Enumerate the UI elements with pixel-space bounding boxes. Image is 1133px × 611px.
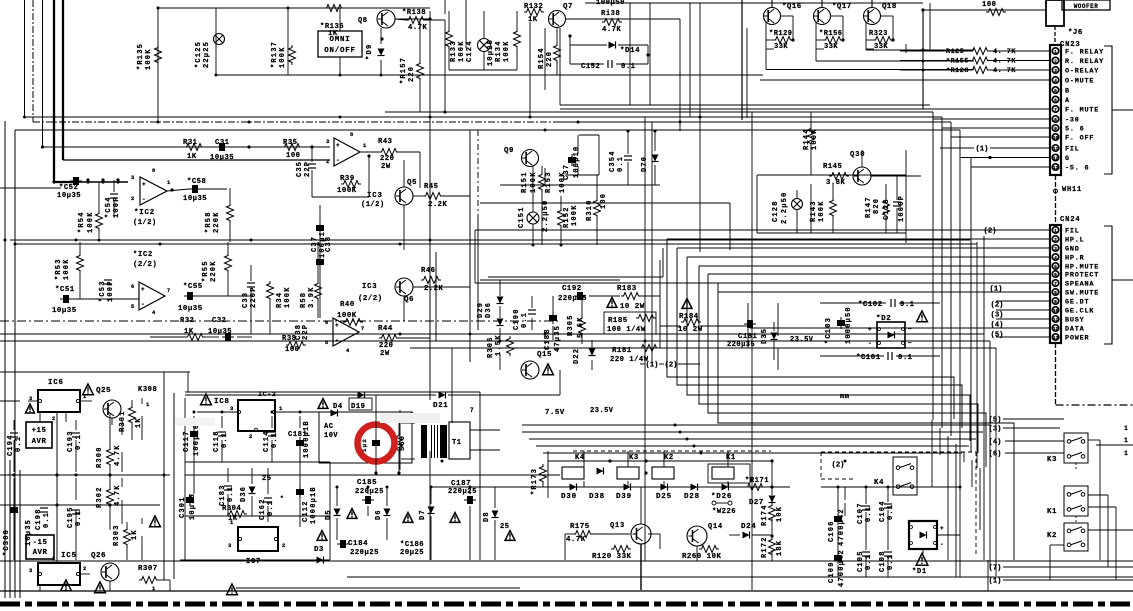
svg-text:6: 6 (325, 320, 329, 326)
svg-text:5: 5 (131, 304, 135, 310)
svg-text:6: 6 (1054, 98, 1057, 104)
svg-text:(1): (1) (989, 577, 1002, 585)
svg-text:*R155: *R155 (946, 58, 969, 66)
svg-text:7: 7 (361, 326, 365, 332)
svg-text:C33: C33 (242, 292, 250, 308)
svg-text:R303: R303 (113, 524, 121, 546)
svg-text:C151: C151 (518, 206, 526, 228)
svg-text:C109: C109 (828, 561, 836, 583)
svg-text:(2): (2) (665, 361, 678, 369)
svg-text:7: 7 (1054, 107, 1057, 113)
svg-text:C128: C128 (883, 198, 891, 220)
svg-text:1K: 1K (328, 30, 338, 38)
svg-text:10μ35: 10μ35 (57, 192, 81, 200)
svg-text:K308: K308 (138, 386, 157, 394)
svg-text:13: 13 (1053, 165, 1059, 171)
svg-text:33K: 33K (774, 43, 788, 51)
svg-text:+: + (141, 286, 145, 293)
svg-text:1.5K: 1.5K (495, 334, 503, 356)
svg-text:2.2μ50: 2.2μ50 (781, 192, 789, 224)
svg-text:*R135: *R135 (137, 43, 145, 70)
svg-text:C188: C188 (544, 328, 552, 350)
svg-text:Q8: Q8 (358, 17, 368, 25)
svg-text:3: 3 (29, 568, 33, 574)
svg-text:9: 9 (1054, 126, 1057, 132)
svg-text:(2/2): (2/2) (133, 261, 157, 269)
svg-text:4: 4 (1054, 78, 1057, 84)
svg-text:R125: R125 (946, 48, 964, 56)
svg-text:(4): (4) (989, 438, 1002, 446)
svg-text:DATA: DATA (1065, 326, 1085, 334)
svg-text:CN24: CN24 (1060, 216, 1080, 224)
svg-text:0.1: 0.1 (43, 512, 51, 528)
svg-text:4. 7K: 4. 7K (993, 48, 1016, 56)
svg-text:R134: R134 (495, 40, 503, 62)
svg-text:*R128: *R128 (946, 67, 969, 75)
svg-text:R174: R174 (761, 504, 769, 526)
svg-text:*C103: *C103 (825, 317, 833, 344)
svg-text:2: 2 (52, 416, 56, 422)
svg-text:220: 220 (408, 66, 416, 82)
svg-text:2W: 2W (381, 163, 391, 171)
svg-text:C114: C114 (263, 430, 271, 452)
svg-text:R. RELAY: R. RELAY (1065, 58, 1104, 66)
svg-text:*Q16: *Q16 (782, 3, 802, 11)
svg-text:R39: R39 (340, 175, 355, 183)
svg-text:100 1/4W: 100 1/4W (607, 326, 646, 334)
svg-text:D21: D21 (433, 402, 448, 410)
svg-text:4: 4 (346, 348, 350, 354)
svg-text:(5): (5) (989, 416, 1002, 424)
svg-text:R144: R144 (803, 128, 811, 150)
svg-text:*C52: *C52 (59, 184, 78, 192)
svg-text:HP.L: HP.L (1065, 237, 1085, 245)
svg-text:100K: 100K (530, 171, 538, 193)
svg-text:R323: R323 (869, 30, 888, 38)
svg-text:100K: 100K (284, 286, 292, 308)
svg-text:C32: C32 (212, 317, 226, 325)
svg-text:2: 2 (326, 159, 330, 165)
svg-text:O-RELAY: O-RELAY (1065, 68, 1099, 76)
svg-text:D36: D36 (485, 302, 493, 318)
svg-text:10μ35: 10μ35 (52, 307, 77, 315)
svg-text:D39: D39 (616, 493, 632, 501)
svg-text:100: 100 (982, 1, 996, 9)
svg-text:100K: 100K (63, 258, 71, 280)
svg-text:-: - (142, 196, 146, 203)
svg-text:1: 1 (146, 401, 150, 408)
svg-text:G: G (1065, 155, 1070, 163)
svg-text:33K: 33K (824, 43, 838, 51)
svg-text:*: * (280, 495, 284, 502)
svg-text:13: 13 (1053, 335, 1059, 341)
svg-text:(3): (3) (991, 311, 1004, 319)
svg-text:4700μ42: 4700μ42 (838, 549, 846, 587)
svg-text:*Q17: *Q17 (832, 3, 852, 11)
svg-text:23.5V: 23.5V (790, 336, 814, 344)
svg-text:2: 2 (1054, 59, 1057, 65)
svg-text:C193: C193 (67, 430, 75, 452)
svg-text:820: 820 (873, 198, 881, 214)
svg-text:(1): (1) (976, 145, 989, 153)
svg-text:12: 12 (1053, 156, 1059, 162)
svg-text:C301: C301 (179, 496, 187, 518)
svg-text:+: + (336, 142, 340, 149)
svg-text:5. 6: 5. 6 (1065, 126, 1085, 134)
svg-text:1: 1 (1124, 450, 1128, 457)
svg-text:R40: R40 (340, 301, 355, 309)
svg-text:*IC2: *IC2 (134, 209, 155, 217)
svg-text:R307: R307 (138, 565, 158, 573)
svg-text:(5): (5) (991, 331, 1004, 339)
svg-text:3: 3 (228, 543, 232, 549)
svg-text:~: ~ (908, 326, 912, 333)
svg-text:1000μ1B: 1000μ1B (310, 486, 318, 524)
svg-text:*C51: *C51 (55, 286, 75, 294)
svg-text:*C101: *C101 (856, 354, 881, 362)
svg-text:F. MUTE: F. MUTE (1065, 107, 1099, 115)
svg-text:22P: 22P (302, 324, 310, 340)
svg-text:1K: 1K (131, 529, 139, 540)
svg-text:R151: R151 (521, 171, 529, 193)
svg-text:10 2W: 10 2W (620, 303, 645, 311)
svg-text:-: - (336, 157, 340, 164)
svg-text:100: 100 (286, 152, 300, 160)
svg-text:*R137: *R137 (271, 41, 279, 68)
svg-text:C184: C184 (348, 540, 368, 548)
svg-text:-: - (141, 301, 145, 308)
svg-text:3: 3 (230, 405, 234, 412)
svg-text:10V: 10V (324, 432, 338, 440)
svg-text:7: 7 (1054, 281, 1057, 287)
svg-text:A: A (1065, 97, 1070, 105)
svg-text:7: 7 (167, 288, 171, 294)
svg-text:T1: T1 (452, 439, 461, 447)
svg-text:11: 11 (1053, 146, 1059, 152)
svg-text:*C54: *C54 (105, 196, 113, 218)
svg-text:1000μ1B: 1000μ1B (303, 420, 311, 458)
svg-text:(1): (1) (646, 361, 659, 369)
svg-text:22P: 22P (304, 161, 312, 177)
svg-text:1: 1 (152, 586, 156, 592)
svg-text:1: 1 (1124, 437, 1128, 444)
svg-text:220: 220 (379, 342, 393, 350)
svg-text:*C102: *C102 (858, 301, 883, 309)
svg-text:GND: GND (1065, 246, 1080, 254)
svg-text:5: 5 (1054, 88, 1057, 94)
svg-text:(2): (2) (984, 227, 997, 235)
svg-text:10: 10 (1053, 135, 1059, 141)
svg-text:Q6: Q6 (404, 296, 414, 304)
svg-text:1000P: 1000P (898, 195, 906, 222)
svg-text:100μ50: 100μ50 (596, 0, 625, 7)
svg-text:R133: R133 (450, 40, 458, 62)
svg-text:R154: R154 (538, 47, 546, 69)
svg-text:D24: D24 (741, 523, 756, 531)
svg-text:IC3: IC3 (362, 283, 377, 291)
svg-text:*J6: *J6 (1068, 29, 1083, 37)
svg-text:Q18: Q18 (882, 3, 897, 11)
svg-text:*R55: *R55 (202, 260, 210, 282)
svg-text:3: 3 (1054, 246, 1057, 252)
svg-text:POWER: POWER (1065, 335, 1090, 343)
svg-text:B: B (1065, 88, 1070, 96)
svg-text:R34: R34 (276, 292, 284, 308)
svg-text:D38: D38 (589, 493, 605, 501)
svg-text:3: 3 (1054, 68, 1057, 74)
svg-text:R43: R43 (378, 138, 392, 146)
svg-text:4. 7K: 4. 7K (993, 58, 1016, 66)
svg-text:10μ35: 10μ35 (210, 154, 234, 162)
svg-text:IC5: IC5 (61, 552, 77, 560)
svg-text:10K: 10K (776, 506, 784, 522)
svg-text:F. OFF: F. OFF (1065, 135, 1094, 143)
svg-text:10μ35: 10μ35 (178, 305, 203, 313)
svg-text:R32: R32 (180, 317, 194, 325)
svg-text:R120 33K: R120 33K (592, 553, 632, 561)
svg-text:O-MUTE: O-MUTE (1065, 78, 1094, 86)
svg-text:220μ25: 220μ25 (355, 488, 384, 496)
svg-text:C38: C38 (325, 236, 333, 252)
svg-text:7.5V: 7.5V (545, 409, 565, 417)
svg-text:D7: D7 (419, 509, 427, 520)
svg-text:R301: R301 (119, 410, 127, 432)
svg-text:D70: D70 (641, 156, 649, 172)
svg-text:4.7K: 4.7K (114, 444, 122, 466)
svg-text:(1/2): (1/2) (361, 201, 385, 209)
svg-text:C117: C117 (183, 430, 191, 452)
svg-text:C118: C118 (213, 430, 221, 452)
svg-text:100K: 100K (279, 46, 287, 68)
svg-text:~: ~ (908, 340, 912, 347)
svg-text:(3): (3) (989, 425, 1002, 433)
svg-text:*R53: *R53 (55, 258, 63, 280)
svg-text:22μ25: 22μ25 (203, 41, 211, 68)
svg-text:AVR: AVR (33, 549, 48, 557)
svg-text:1K: 1K (528, 16, 538, 24)
svg-text:K4: K4 (874, 479, 884, 487)
svg-text:-: - (940, 541, 944, 548)
svg-text:100K: 100K (503, 40, 511, 62)
svg-text:(1/2): (1/2) (133, 219, 157, 227)
svg-text:R305: R305 (567, 314, 575, 336)
svg-text:*C300: *C300 (3, 529, 11, 556)
svg-text:23.5V: 23.5V (590, 407, 614, 415)
svg-text:C124: C124 (466, 40, 474, 62)
svg-text:7: 7 (470, 407, 474, 414)
svg-text:0.1: 0.1 (898, 354, 913, 362)
svg-text:*C58: *C58 (187, 178, 206, 186)
svg-text:1: 1 (1054, 228, 1057, 234)
svg-text:25: 25 (500, 523, 509, 531)
svg-text:C35: C35 (296, 161, 304, 177)
svg-text:Q14: Q14 (708, 523, 723, 531)
svg-text:IC8: IC8 (214, 398, 230, 406)
svg-text:220 1/4W: 220 1/4W (610, 356, 649, 364)
svg-text:D25: D25 (656, 493, 672, 501)
svg-text:220μ35: 220μ35 (558, 295, 587, 303)
svg-text:R152: R152 (563, 206, 571, 228)
svg-text:R185: R185 (608, 317, 628, 325)
svg-text:1: 1 (167, 180, 171, 186)
svg-text:R46: R46 (421, 267, 435, 275)
svg-text:-30: -30 (1065, 117, 1080, 125)
svg-text:0.1: 0.1 (617, 156, 625, 172)
svg-text:FIL: FIL (1065, 228, 1080, 236)
svg-text:SPEANA: SPEANA (1065, 281, 1094, 289)
svg-text:2: 2 (1054, 237, 1057, 243)
svg-text:4.7K: 4.7K (114, 484, 122, 506)
svg-text:C183: C183 (219, 484, 227, 506)
svg-text:ON/OFF: ON/OFF (324, 47, 355, 55)
svg-text:1: 1 (1124, 425, 1128, 432)
svg-text:PROTECT: PROTECT (1065, 272, 1099, 280)
svg-text:*R157: *R157 (400, 57, 408, 84)
svg-text:100μ10: 100μ10 (573, 146, 581, 178)
svg-text:R147: R147 (865, 196, 873, 218)
svg-text:Q26: Q26 (91, 552, 106, 560)
svg-text:R184: R184 (679, 313, 699, 321)
svg-text:*D9: *D9 (366, 43, 374, 60)
svg-text:+15: +15 (32, 427, 47, 435)
svg-text:3.8K: 3.8K (826, 179, 845, 187)
svg-text:100K: 100K (818, 200, 826, 222)
svg-text:2.2K: 2.2K (428, 201, 447, 209)
svg-text:47μ35: 47μ35 (554, 325, 562, 352)
svg-text:+: + (868, 326, 872, 333)
svg-text:Q15: Q15 (537, 351, 552, 359)
svg-text:C354: C354 (609, 150, 617, 172)
svg-text:R58: R58 (300, 292, 308, 308)
svg-text:D30: D30 (561, 493, 577, 501)
svg-text:6: 6 (1054, 272, 1057, 278)
svg-text:220K: 220K (213, 211, 221, 233)
svg-text:Q9: Q9 (504, 147, 514, 155)
svg-text:4.7K: 4.7K (602, 26, 621, 34)
svg-text:-15: -15 (33, 539, 48, 547)
svg-text:AC: AC (324, 423, 333, 431)
svg-text:0.1: 0.1 (15, 436, 23, 452)
svg-text:100K: 100K (337, 187, 357, 195)
svg-text:100K: 100K (87, 211, 95, 233)
svg-text:2: 2 (282, 543, 286, 549)
svg-text:220μ25: 220μ25 (350, 549, 379, 557)
svg-text:D19: D19 (351, 403, 365, 411)
svg-text:100K: 100K (145, 48, 153, 70)
svg-text:10μ35: 10μ35 (183, 195, 207, 203)
svg-text:WH11: WH11 (1062, 186, 1082, 194)
svg-text:Q13: Q13 (610, 522, 625, 530)
svg-text:5.6K: 5.6K (577, 316, 585, 338)
svg-text:AVR: AVR (32, 438, 47, 446)
svg-text:*R173: *R173 (531, 468, 539, 495)
svg-text:R306: R306 (487, 336, 495, 358)
svg-text:D35: D35 (761, 328, 769, 344)
svg-text:12: 12 (1053, 326, 1059, 332)
svg-text:8: 8 (152, 168, 156, 174)
svg-text:25: 25 (262, 475, 271, 483)
svg-text:18K: 18K (776, 540, 784, 556)
svg-text:0.1: 0.1 (521, 312, 529, 328)
svg-text:*R58: *R58 (205, 211, 213, 233)
svg-text:D8: D8 (483, 511, 491, 522)
svg-text:C106: C106 (828, 520, 836, 542)
svg-text:Q5: Q5 (407, 179, 417, 187)
svg-text:2W: 2W (380, 350, 390, 358)
svg-text:C190: C190 (513, 308, 521, 330)
svg-text:(2): (2) (832, 461, 845, 469)
svg-text:100K: 100K (458, 40, 466, 62)
svg-text:100: 100 (600, 193, 608, 209)
svg-text:R260 10K: R260 10K (682, 553, 722, 561)
svg-text:*D1: *D1 (912, 568, 927, 576)
svg-text:(7): (7) (989, 564, 1002, 572)
svg-text:4: 4 (152, 310, 156, 316)
svg-text:-: - (868, 340, 872, 347)
svg-text:IC3: IC3 (367, 192, 383, 200)
svg-text:SW.MUTE: SW.MUTE (1065, 290, 1099, 298)
svg-text:11: 11 (1053, 317, 1059, 323)
svg-text:4.7K: 4.7K (408, 24, 427, 32)
svg-text:220μ35: 220μ35 (727, 341, 755, 349)
svg-text:Ri38: Ri38 (601, 10, 620, 18)
svg-text:10μ25: 10μ25 (487, 39, 495, 66)
svg-text:*C186: *C186 (400, 541, 424, 549)
svg-text:8: 8 (350, 132, 354, 138)
svg-text:C192: C192 (562, 285, 582, 293)
svg-text:4.7K: 4.7K (566, 536, 586, 544)
svg-text:IC7: IC7 (246, 558, 261, 566)
svg-text:8: 8 (1054, 290, 1057, 296)
svg-text:GE.DT: GE.DT (1065, 299, 1089, 307)
svg-text:(1): (1) (990, 285, 1003, 293)
svg-text:2.2μ50: 2.2μ50 (542, 200, 550, 232)
svg-text:*C55: *C55 (183, 283, 203, 291)
svg-text:mm: mm (840, 393, 849, 401)
svg-text:+: + (142, 181, 146, 188)
svg-text:*C125: *C125 (195, 41, 203, 68)
svg-text:K2: K2 (1047, 532, 1057, 540)
svg-text:*IC2: *IC2 (133, 251, 153, 259)
svg-text:1: 1 (363, 143, 367, 149)
svg-text:4: 4 (1054, 255, 1057, 261)
svg-text:1K: 1K (187, 153, 197, 161)
svg-text:3: 3 (326, 139, 330, 145)
svg-text:D3: D3 (314, 546, 324, 554)
svg-text:HP.R: HP.R (1065, 255, 1085, 263)
svg-text:10 2W: 10 2W (678, 326, 703, 334)
svg-text:*R138: *R138 (402, 9, 426, 17)
svg-text:C112: C112 (302, 500, 310, 522)
svg-text:2: 2 (249, 433, 253, 440)
svg-text:5: 5 (325, 340, 329, 346)
svg-text:8: 8 (1054, 117, 1057, 123)
svg-text:9: 9 (1054, 299, 1057, 305)
svg-text:R300: R300 (96, 446, 104, 468)
svg-text:-: - (335, 337, 339, 344)
svg-text:6: 6 (131, 284, 135, 290)
svg-text:D28: D28 (684, 493, 700, 501)
svg-text:K3: K3 (1047, 456, 1057, 464)
svg-text:(4): (4) (991, 321, 1004, 329)
svg-text:220: 220 (380, 155, 394, 163)
svg-text:IC6: IC6 (48, 379, 64, 387)
svg-text:1: 1 (279, 405, 283, 412)
svg-text:BUSY: BUSY (1065, 317, 1085, 325)
svg-text:R183: R183 (617, 285, 637, 293)
svg-text:R45: R45 (424, 183, 438, 191)
svg-text:2.2K: 2.2K (424, 285, 443, 293)
